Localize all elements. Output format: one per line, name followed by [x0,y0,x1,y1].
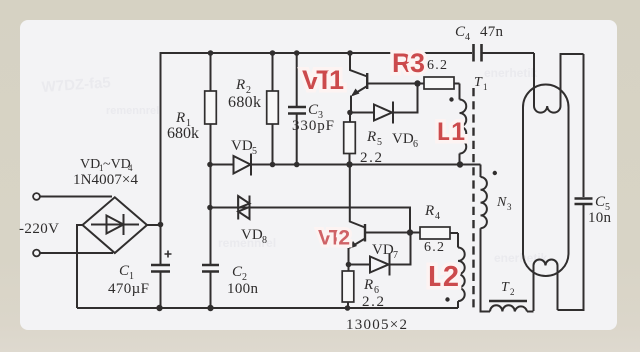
capacitor C4 [474,44,482,62]
svg-text:5: 5 [377,137,382,148]
svg-text:4: 4 [435,211,440,222]
svg-text:8: 8 [262,235,267,246]
transformer T2 [489,301,534,312]
lamp top filament [534,53,584,113]
svg-text:R: R [366,129,376,145]
svg-text:2.2: 2.2 [360,150,382,166]
transistor VT2 [349,165,411,265]
svg-text:R: R [235,77,245,93]
svg-text:remennrel: remennrel [106,105,159,117]
svg-text:330pF: 330pF [292,118,334,134]
capacitor C5 [575,199,593,205]
svg-text:10n: 10n [588,210,612,226]
svg-text:1N4007×4: 1N4007×4 [73,172,139,188]
svg-text:L1: L1 [437,118,465,146]
wire top rail with left rail [161,53,473,265]
svg-text:R: R [175,110,185,126]
svg-text:7: 7 [393,250,398,261]
svg-text:T: T [501,280,510,295]
svg-text:2: 2 [510,287,515,297]
capacitor C1 [151,251,172,309]
capacitor C3 [288,53,306,165]
svg-text:W7DZ-fa5: W7DZ-fa5 [41,74,111,96]
lamp bottom filament [534,260,558,312]
svg-text:R: R [363,277,373,293]
diac VD8 [210,196,410,233]
svg-text:470µF: 470µF [108,281,149,297]
wire top rail right of C4 [482,52,535,54]
transistor VT1 [350,53,418,113]
wire AC top [40,196,112,198]
svg-text:enerhetik: enerhetik [484,66,538,80]
svg-text:R: R [424,203,434,219]
bridge rectifier VD1-VD4 [83,197,148,253]
resistor R1 [205,53,217,265]
resistor R6 [342,265,354,309]
winding N3 [481,165,491,312]
svg-text:5: 5 [252,146,257,157]
svg-text:2.2: 2.2 [362,294,384,310]
inductor L2 [458,233,465,308]
resistor R2 [267,53,279,165]
svg-text:VT2: VT2 [318,227,349,250]
resistor R3 [418,77,460,89]
svg-text:enerhetik: enerhetik [494,251,548,265]
svg-text:680k: 680k [167,125,199,142]
svg-text:N: N [496,195,507,210]
svg-text:R3: R3 [392,48,425,78]
wire bridge right corner to left rail [147,224,161,226]
svg-text:VD: VD [392,131,414,147]
diode VD6 [350,84,418,124]
svg-text:L2: L2 [428,261,458,293]
svg-text:VT1: VT1 [302,65,344,95]
svg-text:4: 4 [465,32,470,43]
svg-text:13005×2: 13005×2 [346,317,407,333]
terminal input bottom [33,250,40,257]
wire AC bottom [40,252,113,254]
wire bottom rail [77,307,458,309]
diode VD5 [210,154,481,176]
polarity dot N3 [493,171,497,175]
resistor R5 [344,113,356,165]
diode VD7 [349,233,411,276]
svg-text:6: 6 [413,139,418,150]
polarity dot L1 [449,97,453,101]
transformer T1 dashed core [472,88,474,308]
svg-text:3: 3 [507,202,512,212]
wire lamp right side [558,54,584,310]
wire bridge left corner to bottom rail [77,225,83,308]
inductor L1 [460,84,467,165]
svg-text:VD: VD [80,157,100,172]
terminal input top [33,193,40,200]
svg-text:VD: VD [231,138,253,154]
fluorescent lamp tube [523,85,569,277]
svg-text:6.2: 6.2 [427,58,447,73]
polarity dot L2 [445,297,449,301]
svg-text:100n: 100n [227,281,259,297]
svg-text:6.2: 6.2 [424,240,444,255]
red annotations [302,48,465,293]
svg-text:-220V: -220V [19,221,59,237]
svg-text:1: 1 [483,82,488,92]
svg-text:~VD: ~VD [103,157,131,172]
svg-text:T: T [474,75,483,90]
svg-text:VD: VD [241,227,263,243]
svg-text:680k: 680k [228,94,261,111]
capacitor C2 [202,265,219,308]
svg-text:47n: 47n [480,24,504,40]
svg-text:VD: VD [372,242,394,258]
resistor R4 [410,227,458,239]
